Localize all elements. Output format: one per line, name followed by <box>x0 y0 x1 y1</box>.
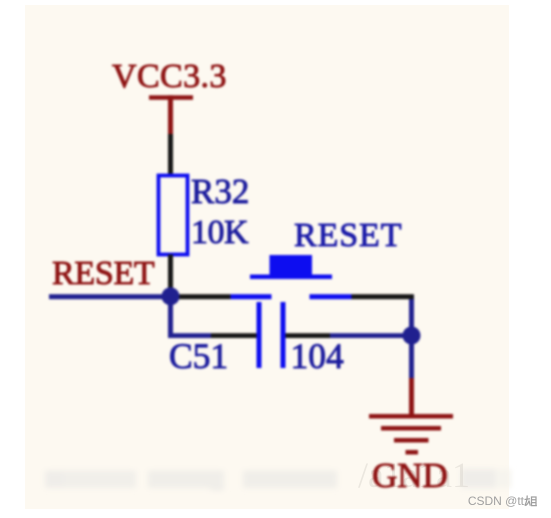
wire C51 left stub (navy segment) <box>168 333 211 338</box>
wire node RESET to S1 (black) <box>171 294 231 299</box>
wire S1 left pin (bright blue) <box>231 294 272 299</box>
wire RESET net stub (navy) <box>49 294 171 299</box>
wire right corner down to junction (navy) <box>409 295 414 336</box>
wire R32 pin 2 to node RESET (black) <box>168 255 173 297</box>
push button S1 cap <box>270 255 313 275</box>
push button S1 actuator bar <box>250 275 332 280</box>
wire node RESET down to C51 row (navy) <box>168 296 173 338</box>
svg-text:RESET: RESET <box>294 217 402 254</box>
ground GND bar 4 <box>406 450 419 455</box>
ground GND bar 3 <box>394 438 429 443</box>
wire VCC3.3 bar to R32 (dark red segment) <box>168 95 173 134</box>
wire right junction down (navy segment) <box>409 336 414 379</box>
svg-text:R32: R32 <box>191 172 249 211</box>
svg-text:104: 104 <box>291 336 345 376</box>
junction node right <box>403 327 421 345</box>
wire S1 to right corner (black) <box>352 294 414 299</box>
wire C51 left stub (black segment) <box>211 333 257 338</box>
wire C51 right stub (black segment) <box>286 333 331 338</box>
resistor R32 body <box>159 176 188 255</box>
ground GND bar 2 <box>381 426 441 431</box>
svg-text:RESET: RESET <box>52 255 155 292</box>
svg-text:VCC3.3: VCC3.3 <box>112 58 227 95</box>
junction node RESET <box>162 287 180 305</box>
wire down to GND (dark red segment) <box>409 378 414 414</box>
wire C51 right stub (navy segment) <box>330 333 412 338</box>
capacitor C51 left plate <box>257 302 262 368</box>
power symbol VCC3.3 bar <box>149 95 193 100</box>
ground GND bar 1 <box>369 414 453 419</box>
capacitor C51 right plate <box>281 302 286 368</box>
wire S1 right pin (bright blue) <box>310 294 352 299</box>
wire VCC3.3 to R32 pin 1 (black segment) <box>168 134 173 176</box>
svg-text:10K: 10K <box>191 214 249 251</box>
svg-text:GND: GND <box>372 456 448 495</box>
svg-text:C51: C51 <box>169 336 228 376</box>
